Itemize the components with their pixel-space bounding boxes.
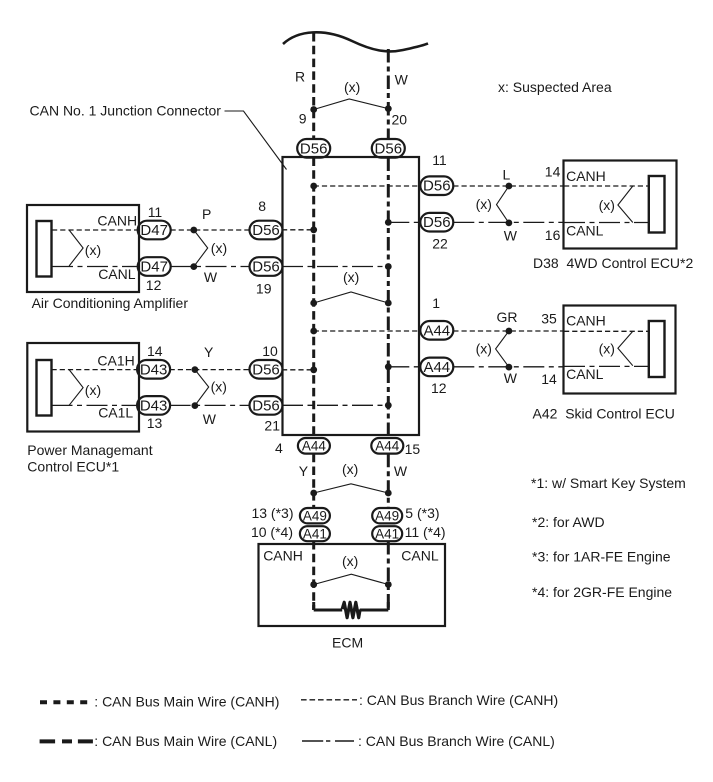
svg-text:W: W [504,228,518,244]
svg-text:*2: for AWD: *2: for AWD [532,514,605,530]
suspected area marker P/W (x) [190,227,227,270]
svg-text:9: 9 [299,111,307,127]
connector oval D47 CANL [138,257,171,276]
connector oval D56 top-left [297,139,330,158]
svg-text:D56: D56 [252,361,280,378]
svg-text:W: W [203,411,217,427]
svg-text:11: 11 [432,152,447,168]
svg-text:19: 19 [256,281,272,297]
svg-text:A44: A44 [302,439,327,454]
svg-text:CANH: CANH [263,548,303,564]
node dots on junction verticals [310,183,391,409]
svg-text:D47: D47 [140,259,168,276]
legend: CAN Bus Main Wire CANL [40,733,278,749]
wire: CA1L branch row Power Management (y=405.4) [52,404,389,406]
svg-text:D56: D56 [300,140,328,157]
svg-text:Control ECU*1: Control ECU*1 [27,459,119,475]
svg-text:12: 12 [431,380,447,396]
svg-text:CA1L: CA1L [98,404,133,420]
svg-text:D43: D43 [140,397,168,414]
connector oval D56 left-10 [250,360,283,379]
svg-text:W: W [504,370,518,386]
svg-text:W: W [395,72,409,88]
suspected area marker L/W (x) [476,183,513,227]
svg-text:(x): (x) [344,79,360,95]
connector oval D43 CA1L [137,396,170,415]
wire: CANH branch row 4WD ECU (y=186) [314,185,649,187]
svg-text:: CAN Bus Main Wire (CANH): : CAN Bus Main Wire (CANH) [94,694,279,710]
svg-text:GR: GR [497,309,518,325]
svg-text:15: 15 [405,441,421,457]
legend: CAN Bus Branch Wire CANH [301,692,558,708]
wire: CANH main bus vertical (x=313.7) [312,33,315,610]
svg-text:(x): (x) [342,553,358,569]
connector oval A44 bottom-left [298,438,330,454]
svg-text:A44: A44 [423,322,450,339]
connector oval D47 CANH [138,221,171,240]
svg-text:W: W [204,269,218,285]
svg-text:CANL: CANL [98,266,136,282]
wire: CANL main bus vertical (x=388.3) [387,49,390,610]
svg-text:P: P [202,206,211,222]
connector oval A49 right [372,508,402,523]
connector oval D56 right-22 [420,213,453,232]
svg-text:35: 35 [541,311,557,327]
svg-text:11 (*4): 11 (*4) [405,524,446,540]
svg-text:CANL: CANL [566,223,604,239]
svg-text:(x): (x) [85,242,101,258]
svg-text:22: 22 [432,236,448,252]
connector oval D56 right-11 [420,176,453,195]
wire: CAN main wave cut indicator [283,32,428,51]
svg-text:13: 13 [147,415,163,431]
suspected area marker Y/W (x) [192,366,227,409]
svg-text:: CAN Bus Main Wire (CANL): : CAN Bus Main Wire (CANL) [94,733,277,749]
svg-text:CANL: CANL [566,366,604,382]
svg-text:*3: for 1AR-FE Engine: *3: for 1AR-FE Engine [532,549,671,565]
suspected area marker top (x) [314,79,389,110]
connector oval A44 right-1 [420,321,453,340]
notes *1..*4 [531,475,686,600]
svg-text:D56: D56 [423,214,451,231]
connector oval A44 bottom-right [371,438,403,454]
component: Power Management Control ECU box [27,343,139,432]
svg-text:(x): (x) [476,196,492,212]
suspected area marker bottom Y/W (x) [310,461,391,496]
svg-text:Power Managemant: Power Managemant [27,442,152,458]
svg-text:(x): (x) [599,197,615,213]
svg-text:(x): (x) [85,382,101,398]
svg-text:(x): (x) [211,240,227,256]
component: Air Conditioning Amplifier box [27,205,139,292]
wire: CANL branch row 4WD ECU (y=222.4) [388,221,649,223]
svg-text:(x): (x) [343,269,359,285]
svg-text:D56: D56 [423,178,451,195]
svg-text:CANH: CANH [566,312,606,328]
junction connector box [283,157,420,435]
component: D38 4WD Control ECU box [564,161,677,249]
connector oval A41 right [372,526,402,541]
connector oval D56 left-21 [250,396,283,415]
svg-text:A44: A44 [423,359,450,376]
suspected area marker GR/W (x) [476,328,513,371]
svg-text:14: 14 [147,343,163,359]
svg-text:A44: A44 [375,439,400,454]
svg-text:8: 8 [258,198,266,214]
wire: CA1H branch row Power Management (y=369.6) [52,369,314,371]
legend: CAN Bus Main Wire CANH [40,694,279,710]
svg-text:R: R [295,69,305,85]
svg-text:ECM: ECM [332,635,363,651]
svg-text:Y: Y [299,463,309,479]
svg-text:D47: D47 [140,222,168,239]
svg-text:CAN No. 1 Junction Connector: CAN No. 1 Junction Connector [30,103,222,119]
wire: CANH branch row AC Amplifier (y=230) [52,229,314,231]
terminating resistor in ECM [314,602,389,617]
connector oval D56 left-19 [250,257,283,276]
svg-text:(x): (x) [599,341,615,357]
svg-text:A41: A41 [303,526,327,541]
component: ECM box [259,544,446,626]
svg-text:CANL: CANL [401,548,439,564]
svg-text:D56: D56 [252,259,280,276]
svg-text:x: Suspected Area: x: Suspected Area [498,79,612,95]
svg-text:(x): (x) [476,341,492,357]
svg-text:Y: Y [204,344,214,360]
svg-text:14: 14 [541,371,557,387]
component: A42 Skid Control ECU box [564,306,676,394]
svg-text:4: 4 [275,440,283,456]
node dot CANL top [385,105,392,112]
svg-text:*1: w/ Smart Key System: *1: w/ Smart Key System [531,475,686,491]
suspected area marker inside junction (x) [310,269,391,306]
wire: CANH branch row Skid ECU (y=331) [314,330,649,332]
svg-text:Air Conditioning Amplifier: Air Conditioning Amplifier [32,295,189,311]
wire: CANL branch row Skid ECU (y=366.8) [388,365,648,367]
connector oval D56 top-right [372,139,405,158]
svg-text:*4: for 2GR-FE Engine: *4: for 2GR-FE Engine [532,584,672,600]
svg-text:CA1H: CA1H [97,352,134,368]
connector oval D43 CA1H [137,360,170,379]
svg-text:D56: D56 [252,222,280,239]
svg-text:A42 Skid Control ECU: A42 Skid Control ECU [533,406,675,422]
svg-text:CANH: CANH [97,212,137,228]
svg-text:W: W [394,463,408,479]
svg-text:L: L [503,167,511,183]
svg-text:(x): (x) [342,461,358,477]
svg-text:16: 16 [545,227,561,243]
wire: CANL branch row AC Amplifier (y=266.5) [52,266,388,268]
svg-text:12: 12 [146,277,162,293]
svg-text:5 (*3): 5 (*3) [405,505,439,521]
label: CAN No. 1 Junction Connector with leader [30,103,287,170]
svg-text:21: 21 [264,418,280,434]
svg-text:: CAN Bus Branch Wire (CANL): : CAN Bus Branch Wire (CANL) [358,733,555,749]
svg-text:10: 10 [262,343,278,359]
svg-text:20: 20 [392,112,408,128]
connector oval A49 left [300,508,330,523]
svg-text:D43: D43 [140,361,168,378]
svg-text:14: 14 [545,164,561,180]
suspected area marker ECM (x) [310,553,391,588]
svg-text:: CAN Bus Branch Wire (CANH): : CAN Bus Branch Wire (CANH) [359,692,558,708]
svg-text:A49: A49 [303,508,327,523]
svg-text:11: 11 [148,204,163,220]
svg-text:1: 1 [432,295,440,311]
connector oval D56 left-8 [250,221,283,240]
svg-text:D56: D56 [252,397,280,414]
svg-text:A41: A41 [375,526,399,541]
svg-text:D38 4WD Control ECU*2: D38 4WD Control ECU*2 [533,255,693,271]
svg-text:10 (*4): 10 (*4) [251,524,293,540]
svg-text:D56: D56 [375,140,403,157]
connector oval A41 left [300,526,330,541]
svg-text:(x): (x) [211,379,227,395]
svg-text:13 (*3): 13 (*3) [251,505,293,521]
legend: CAN Bus Branch Wire CANL [302,733,555,749]
svg-text:A49: A49 [375,508,399,523]
svg-text:CANH: CANH [566,168,606,184]
node dot CANH top [310,106,317,113]
connector oval A44 right-12 [420,358,453,377]
